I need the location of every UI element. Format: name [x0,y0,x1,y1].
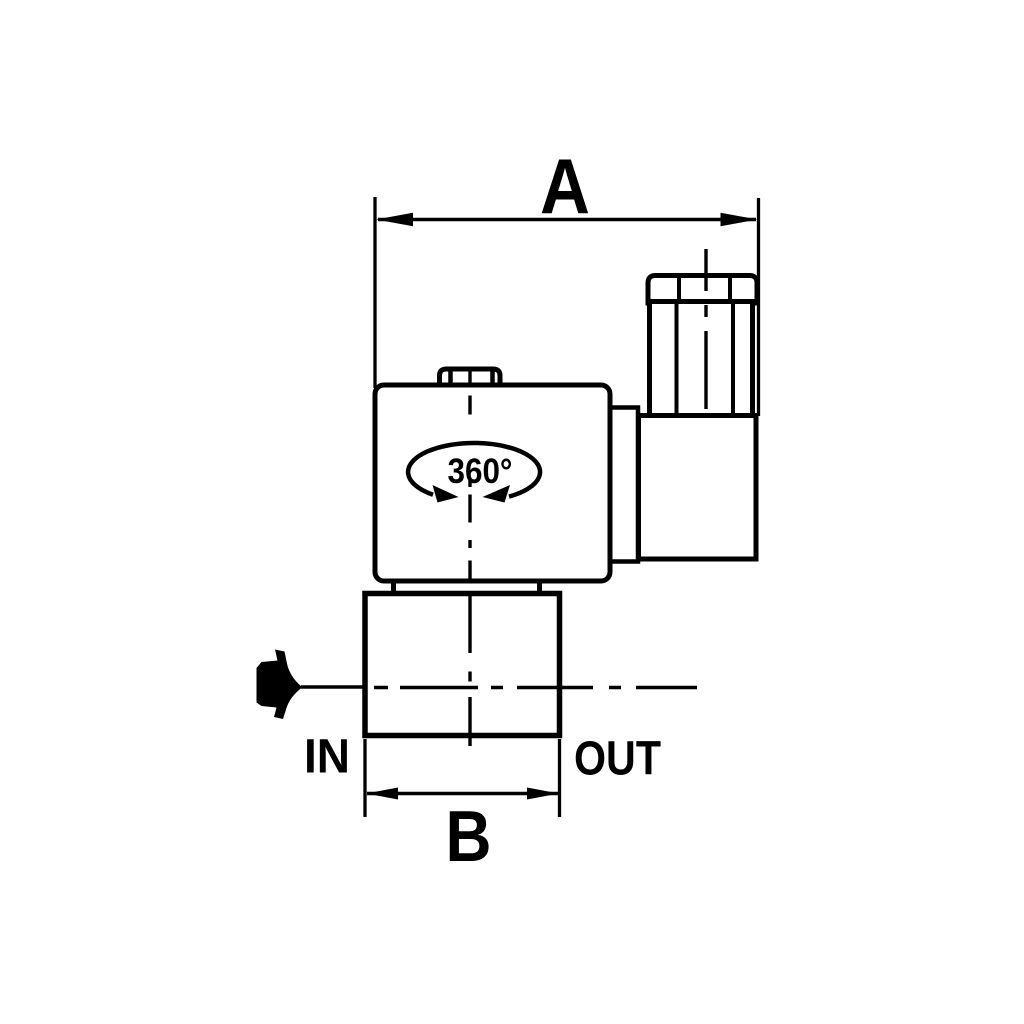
rotation ellipse left arrowhead [433,485,459,503]
dimension A right extension line [757,198,760,416]
dimension B line [367,792,558,795]
coil mounting nut [440,369,501,387]
gland vertical centerline [704,249,707,409]
neck stub left (between coil and valve body) [391,580,396,595]
neck stub right (between coil and valve body) [537,580,542,595]
dimension A left extension line [373,197,376,388]
connector tab between coil and connector block [610,408,638,562]
svg-text:B: B [446,797,492,877]
coil body [375,385,610,581]
dimension A left arrowhead [376,213,413,226]
flow direction arrow [257,650,303,720]
valve body [365,594,560,736]
coil vertical centerline [468,368,471,746]
360-degree rotation ellipse [408,443,540,497]
svg-text:360°: 360° [448,452,513,491]
dimension B left extension line [363,739,366,817]
flow arrow shaft [301,685,367,689]
svg-text:A: A [540,142,590,230]
horizontal flow centerline [374,686,697,690]
dimension B right arrowhead [527,788,559,800]
dimension A right arrowhead [721,213,758,226]
cable gland body [650,302,753,417]
dimension A line [378,218,756,221]
svg-text:IN: IN [304,731,350,784]
dimension B right extension line [558,739,561,817]
connector block [639,416,757,560]
cable gland cap nut [648,276,757,304]
rotation ellipse right arrowhead [483,485,511,503]
svg-text:OUT: OUT [574,733,661,786]
dimension B left arrowhead [366,788,398,800]
